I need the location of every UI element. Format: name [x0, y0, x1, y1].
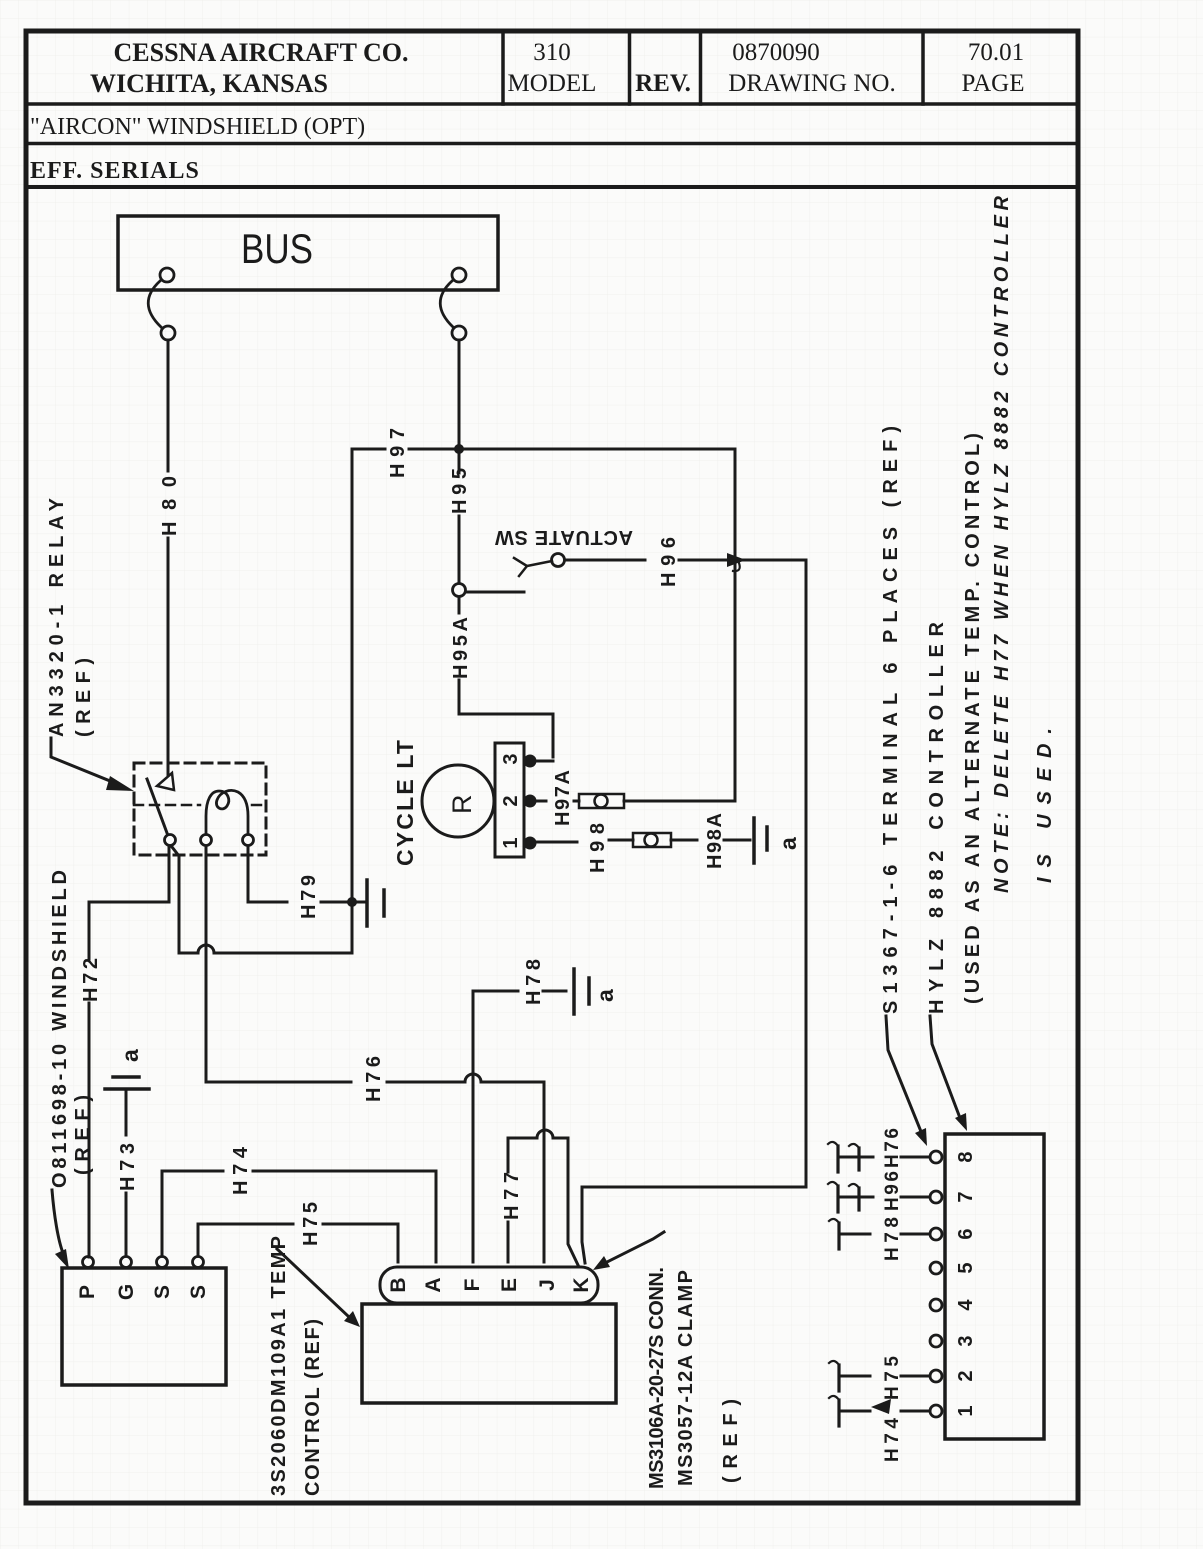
svg-text:310: 310	[533, 39, 571, 66]
ground H79	[367, 880, 384, 926]
label H78	[882, 1217, 903, 1261]
svg-text:H75: H75	[300, 1202, 322, 1246]
H96 connection arrow	[727, 553, 746, 571]
svg-text:ACTUATE SW: ACTUATE SW	[495, 526, 633, 548]
H74 label arrow	[871, 1399, 891, 1414]
circuit breaker CB2	[440, 268, 466, 340]
leader arrow to relay	[51, 738, 134, 791]
svg-text:O811698-10 WINDSHIELD: O811698-10 WINDSHIELD	[49, 870, 71, 1188]
relay coil	[206, 790, 248, 834]
label a	[592, 989, 618, 1002]
svg-text:EFF. SERIALS: EFF. SERIALS	[30, 158, 200, 184]
svg-text:70.01: 70.01	[968, 39, 1024, 66]
label CYCLE LT	[392, 740, 418, 866]
connector pin numbers	[500, 753, 522, 848]
svg-text:H96: H96	[658, 537, 680, 587]
label H72	[80, 958, 102, 1002]
switch contact line	[466, 591, 524, 594]
svg-text:H77: H77	[501, 1172, 523, 1220]
bus label	[241, 225, 313, 272]
svg-text:4: 4	[955, 1299, 977, 1311]
svg-text:G: G	[115, 1284, 138, 1300]
label H73	[117, 1143, 139, 1191]
leader arrow to pin strip	[593, 1232, 664, 1270]
wire H96 to terminal 7	[828, 1182, 930, 1212]
wire H72	[89, 846, 169, 1257]
svg-text:S: S	[151, 1285, 174, 1299]
node junction H79	[347, 897, 357, 907]
svg-text:H79: H79	[298, 875, 320, 919]
lamp connector strip	[495, 743, 524, 857]
svg-text:a: a	[775, 837, 801, 850]
label H96	[658, 537, 680, 587]
label H98A	[704, 813, 726, 869]
wire H96	[565, 559, 806, 562]
wire pin3	[536, 760, 553, 763]
svg-text:2: 2	[500, 795, 522, 806]
wire H80	[167, 340, 170, 776]
svg-text:E: E	[498, 1278, 521, 1292]
svg-text:7: 7	[955, 1191, 977, 1202]
label a	[775, 837, 801, 850]
relay pin circles	[165, 835, 254, 846]
note IS USED.	[1034, 728, 1056, 883]
svg-text:H74: H74	[230, 1146, 252, 1195]
label O811698-10 WINDSHIELD (REF)	[49, 870, 94, 1188]
wire H79	[248, 846, 366, 902]
wire actuate to pin K	[582, 560, 806, 1263]
label H96	[882, 1171, 903, 1211]
label H75	[882, 1356, 903, 1400]
relay blade	[147, 779, 167, 833]
wire H74	[162, 1171, 436, 1262]
wire H75	[198, 1224, 398, 1262]
label H74	[882, 1418, 903, 1462]
label 3S2060DM109A1 TEMP CONTROL (REF)	[268, 1236, 324, 1496]
svg-text:H76: H76	[363, 1056, 385, 1102]
cycle light lamp	[422, 765, 494, 837]
wire H98	[536, 840, 633, 842]
svg-text:H73: H73	[117, 1143, 139, 1191]
svg-text:PAGE: PAGE	[962, 70, 1025, 97]
resistor H97A	[579, 794, 624, 808]
leader arrow to temp control	[52, 1190, 69, 1269]
wire H78	[473, 991, 566, 1262]
title block text	[30, 38, 1025, 184]
svg-text:3: 3	[500, 753, 522, 764]
svg-text:H80: H80	[159, 476, 181, 536]
svg-text:2: 2	[955, 1370, 977, 1381]
svg-text:"AIRCON" WINDSHIELD (OPT): "AIRCON" WINDSHIELD (OPT)	[30, 114, 365, 140]
svg-text:6: 6	[955, 1228, 977, 1239]
ground a H73	[105, 1077, 149, 1089]
label ACTUATE SW	[495, 526, 633, 548]
svg-text:CESSNA AIRCRAFT CO.: CESSNA AIRCRAFT CO.	[114, 38, 409, 67]
svg-text:K: K	[570, 1277, 593, 1292]
svg-text:S: S	[187, 1285, 210, 1299]
connector terminal dots	[524, 755, 537, 850]
MS connector pin strip	[380, 1267, 598, 1303]
leader arrow to terminal 8	[886, 1016, 927, 1146]
svg-text:J: J	[536, 1279, 559, 1291]
wire H74 to terminal 1	[829, 1396, 930, 1426]
actuate switch	[453, 554, 565, 597]
wire H78 to terminal 6	[829, 1219, 930, 1249]
wire H76	[206, 846, 544, 1262]
svg-text:B: B	[387, 1277, 410, 1292]
terminal numbers	[955, 1151, 977, 1416]
MS connector body	[362, 1304, 616, 1403]
svg-text:H97A: H97A	[552, 770, 574, 826]
svg-text:a: a	[592, 989, 618, 1002]
svg-text:H78: H78	[523, 959, 545, 1005]
note (USED AS AN ALTERNATE TEMP. CONTROL)	[962, 433, 984, 1004]
label H97A	[552, 770, 574, 826]
svg-text:BUS: BUS	[241, 225, 313, 272]
wire H95	[458, 340, 461, 583]
label H80	[159, 476, 181, 536]
label MS3106A-20-27S CONN.	[646, 1267, 742, 1489]
label H97	[387, 428, 409, 478]
label H75	[300, 1202, 322, 1246]
switch blade	[514, 558, 552, 576]
svg-text:H74: H74	[882, 1418, 903, 1462]
svg-text:H98: H98	[587, 823, 609, 873]
label H98	[587, 823, 609, 873]
svg-text:8: 8	[955, 1151, 977, 1162]
pin letters B A F E J K	[387, 1277, 593, 1292]
svg-text:H95: H95	[449, 468, 471, 514]
terminal letters P G S S	[76, 1284, 210, 1300]
wire H77	[508, 1130, 578, 1265]
svg-text:MS3106A-20-27S CONN.: MS3106A-20-27S CONN.	[646, 1267, 668, 1489]
svg-text:H75: H75	[882, 1356, 903, 1400]
svg-text:CONTROL (REF): CONTROL (REF)	[302, 1319, 324, 1496]
svg-text:H72: H72	[80, 958, 102, 1002]
svg-text:H78: H78	[882, 1217, 903, 1261]
wire H75 to terminal 2	[829, 1361, 930, 1391]
svg-text:H97: H97	[387, 428, 409, 478]
relay contact triangle	[157, 773, 174, 790]
circuit breaker CB1	[148, 268, 175, 340]
svg-text:1: 1	[500, 837, 522, 848]
leader arrow to terminal strip	[930, 1016, 967, 1131]
svg-text:MODEL: MODEL	[508, 70, 597, 97]
label a	[117, 1049, 143, 1062]
temp control box	[62, 1268, 226, 1385]
label H79	[298, 875, 320, 919]
label H77	[501, 1172, 523, 1220]
svg-text:MS3057-12A CLAMP: MS3057-12A CLAMP	[675, 1270, 697, 1486]
label H76	[363, 1056, 385, 1102]
label H95	[449, 468, 471, 514]
wire H98A	[671, 839, 750, 842]
svg-text:REV.: REV.	[635, 70, 691, 97]
wire H97A	[536, 449, 735, 801]
label AN3320-1 RELAY (REF)	[46, 497, 95, 737]
terminal strip S1367-1-6	[945, 1134, 1044, 1439]
resistor H98	[633, 833, 671, 847]
relay AN3320-1 dashed box	[134, 763, 266, 855]
bus bar	[118, 216, 498, 290]
svg-text:a: a	[117, 1049, 143, 1062]
svg-text:3: 3	[955, 1335, 977, 1346]
svg-text:CYCLE LT: CYCLE LT	[392, 740, 418, 866]
svg-text:H98A: H98A	[704, 813, 726, 869]
temp control terminals	[83, 1257, 204, 1268]
svg-text:A: A	[422, 1277, 445, 1292]
wire H95A	[459, 597, 553, 757]
svg-text:H76: H76	[882, 1128, 903, 1168]
label H95A	[450, 617, 472, 679]
ground a H98A	[754, 818, 767, 863]
lamp filament mark	[447, 795, 477, 815]
svg-text:P: P	[76, 1285, 99, 1299]
note S1367-1-6 TERMINAL 6 PLACES (REF)	[880, 426, 902, 1014]
svg-text:DRAWING NO.: DRAWING NO.	[728, 70, 895, 97]
svg-text:F: F	[461, 1278, 484, 1291]
svg-text:5: 5	[955, 1262, 977, 1273]
wire relay common to H97	[172, 847, 352, 953]
wire H76 to terminal 8	[828, 1142, 930, 1172]
node junction H97/H95	[454, 444, 464, 454]
note NOTE: DELETE H77 WHEN HYLZ 8882 CONTROLLER	[991, 195, 1013, 893]
leader arrow to MS connector	[277, 1249, 360, 1327]
wire H97	[352, 449, 735, 950]
label H76	[882, 1128, 903, 1168]
wire H73	[125, 1091, 128, 1256]
svg-text:R: R	[447, 795, 477, 815]
note HYLZ 8882 CONTROLLER	[926, 621, 948, 1014]
svg-text:1: 1	[955, 1405, 977, 1416]
label H78	[523, 959, 545, 1005]
terminal circles	[930, 1151, 942, 1417]
label H74	[230, 1146, 252, 1195]
svg-text:H96: H96	[882, 1171, 903, 1211]
svg-text:WICHITA, KANSAS: WICHITA, KANSAS	[90, 69, 328, 98]
svg-text:0870090: 0870090	[732, 39, 820, 66]
ground a H78	[574, 969, 589, 1014]
